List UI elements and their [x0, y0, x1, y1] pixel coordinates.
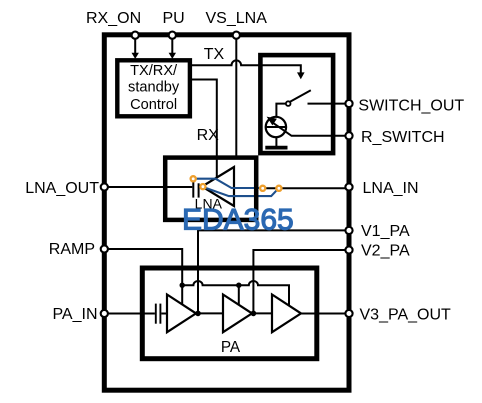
- current source chord: [266, 126, 286, 128]
- svg-text:RX_ON: RX_ON: [86, 10, 141, 27]
- node ring contact 3: [260, 186, 265, 191]
- junction V1_PA/stage1 out: [195, 311, 201, 317]
- PA box: [142, 268, 316, 359]
- svg-text:RX: RX: [197, 127, 220, 144]
- svg-text:SWITCH_OUT: SWITCH_OUT: [358, 97, 464, 114]
- pin V3_PA_OUT: [345, 310, 352, 317]
- svg-text:EDA365: EDA365: [182, 203, 294, 236]
- svg-text:LNA_IN: LNA_IN: [363, 180, 419, 197]
- node ring contact 2: [200, 184, 205, 189]
- wire blue bypass lower path: [205, 188, 278, 197]
- wire RX_ON stub: [134, 39, 136, 53]
- capacitor LNA right plate: [198, 183, 200, 197]
- svg-text:PA_IN: PA_IN: [52, 306, 97, 323]
- wire TX from control to switch box: [189, 60, 301, 72]
- switch pivot circle: [286, 101, 291, 106]
- capacitor LNA left plate: [192, 177, 194, 198]
- junction RAMP/rail: [180, 283, 185, 288]
- svg-text:TX/RX/: TX/RX/: [130, 63, 178, 79]
- wire stage2 to stage3: [252, 312, 272, 314]
- wire V2_PA: [253, 250, 347, 313]
- wire LNA_OUT: [106, 186, 192, 188]
- pin LNA_OUT: [101, 183, 108, 190]
- chip outline: [104, 35, 349, 390]
- amplifier PA stage3: [272, 295, 301, 333]
- svg-text:VS_LNA: VS_LNA: [206, 10, 268, 27]
- wire current source to ground: [275, 137, 277, 146]
- pin V2_PA: [345, 246, 352, 253]
- capacitor PA left plate: [155, 304, 157, 324]
- op-amp LNA triangle: [202, 167, 234, 206]
- wire LNA_IN from rings to pin: [264, 187, 346, 189]
- current source circle: [266, 117, 286, 137]
- amplifier PA stage1: [167, 295, 196, 333]
- wire pivot to current source: [276, 104, 286, 118]
- svg-text:R_SWITCH: R_SWITCH: [361, 129, 445, 146]
- control block: TX/RX/standby Control: [117, 60, 190, 116]
- wire V3_PA_OUT: [301, 313, 348, 315]
- pin PU: [169, 32, 176, 39]
- wire PA bias rail with hops: [182, 281, 289, 305]
- wire PA_IN: [106, 313, 155, 315]
- pin SWITCH_OUT: [345, 100, 352, 107]
- capacitor PA right plate: [159, 304, 161, 324]
- wire VS_LNA vertical: [235, 39, 237, 156]
- svg-text:Control: Control: [130, 97, 177, 113]
- svg-text:standby: standby: [128, 80, 180, 96]
- wire SWITCH_OUT contact: [308, 103, 348, 105]
- pin VS_LNA: [233, 32, 240, 39]
- wire stub rail to PA stage1: [181, 285, 183, 304]
- wire R_SWITCH with control diagonal: [272, 122, 348, 136]
- svg-text:PA: PA: [221, 339, 241, 356]
- arrow VS_LNA into switch box: [297, 72, 305, 79]
- wire RX from control to LNA: [189, 80, 217, 178]
- svg-text:V3_PA_OUT: V3_PA_OUT: [360, 306, 452, 323]
- LNA box: [165, 158, 256, 220]
- wire PU stub: [171, 39, 173, 53]
- wire stub rail to PA stage2: [238, 285, 240, 304]
- svg-text:V2_PA: V2_PA: [361, 243, 410, 260]
- wire blue bypass upper path: [196, 179, 261, 188]
- svg-text:PU: PU: [163, 10, 185, 27]
- svg-text:RAMP: RAMP: [49, 241, 95, 258]
- junction V2_PA/stage2 out: [251, 311, 257, 317]
- pin R_SWITCH: [345, 132, 352, 139]
- svg-text:TX: TX: [204, 46, 225, 63]
- wire RAMP: [106, 249, 182, 285]
- pin RAMP: [101, 245, 108, 252]
- node ring contact 4: [276, 186, 281, 191]
- junction rail/stage2 feed: [236, 283, 241, 288]
- svg-text:LNA_OUT: LNA_OUT: [25, 180, 99, 197]
- pin RX_ON: [132, 32, 139, 39]
- node ring contact 1: [191, 176, 196, 181]
- wire stage1 to stage2: [196, 312, 223, 314]
- arrow RX_ON into control: [132, 53, 139, 59]
- svg-text:V1_PA: V1_PA: [361, 223, 410, 240]
- switch blade S1: [290, 90, 311, 102]
- ground: [265, 146, 287, 150]
- pin LNA_IN: [345, 183, 352, 190]
- amplifier PA stage2: [223, 295, 252, 333]
- wire V1_PA: [198, 230, 348, 313]
- arrow PU into control: [169, 53, 176, 59]
- arrow R_SWITCH adjust: [267, 117, 277, 126]
- pin PA_IN: [101, 310, 108, 317]
- switch box: [260, 55, 333, 153]
- wire cap to PA stage1: [161, 313, 167, 315]
- pin V1_PA: [345, 227, 352, 234]
